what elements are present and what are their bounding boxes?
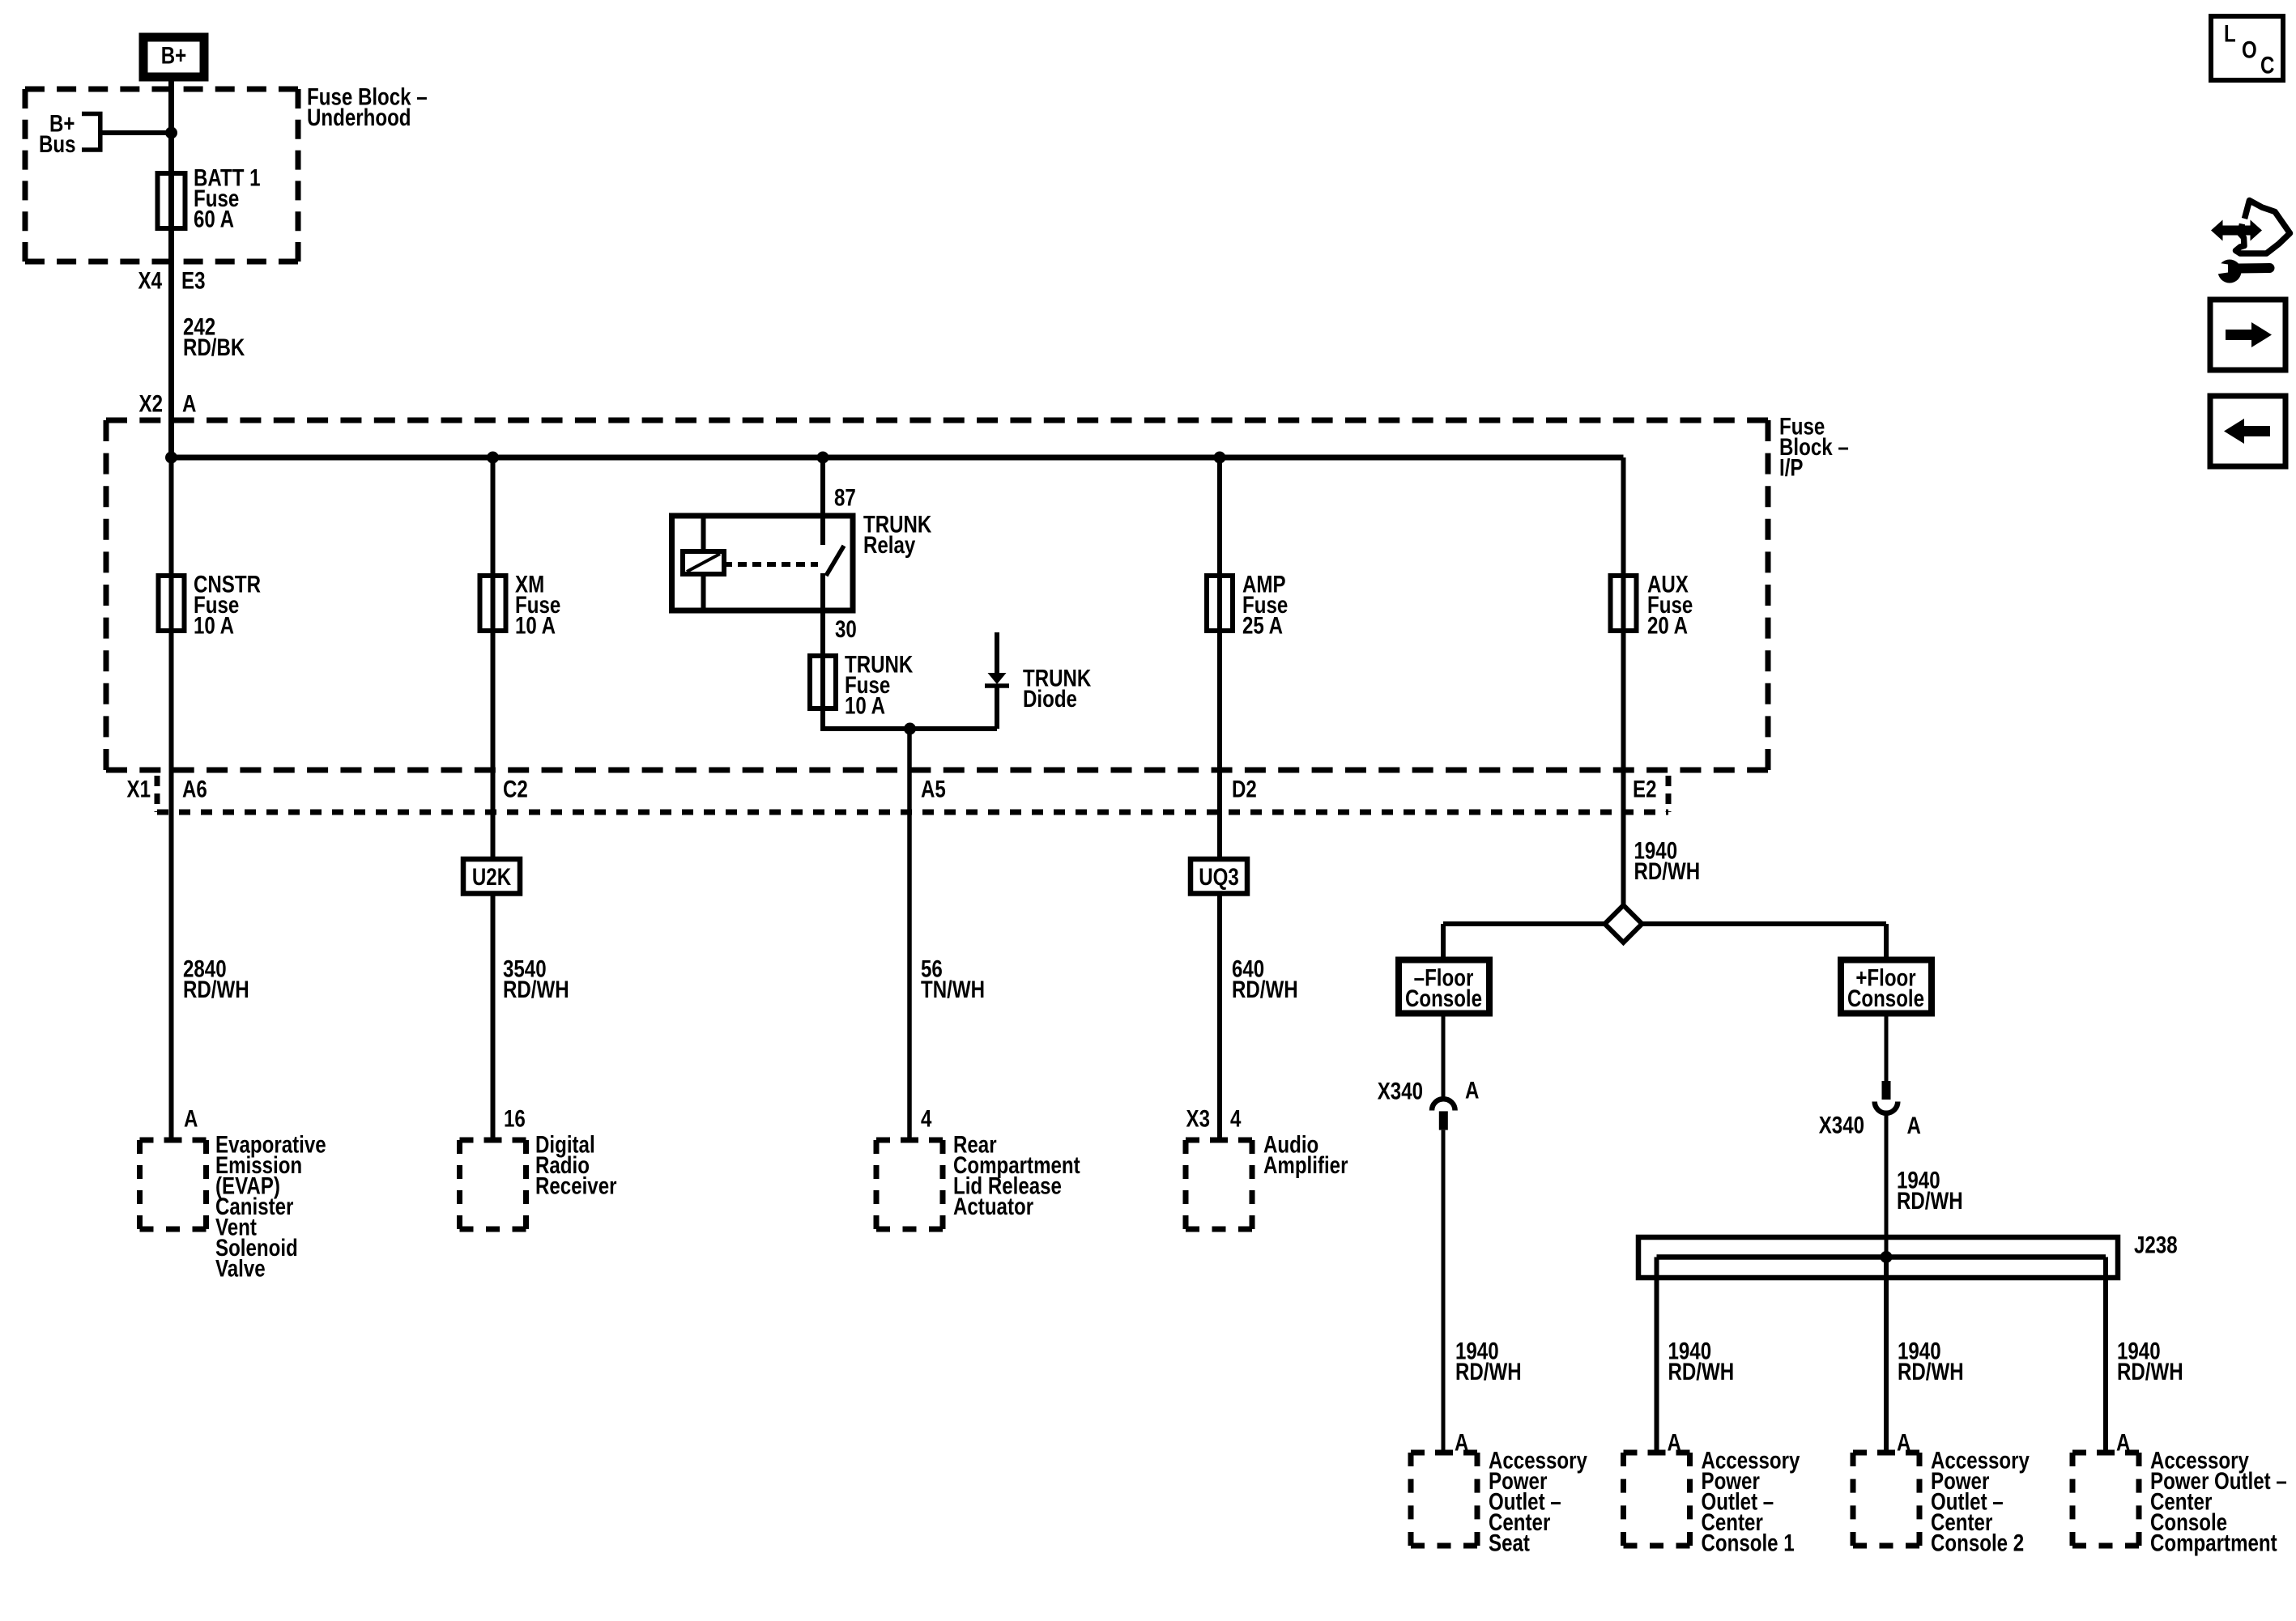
svg-text:J238: J238: [2134, 1232, 2178, 1258]
load box accessory power outlet 2: [1624, 1453, 1690, 1546]
wire J238 drop 3: [2103, 1257, 2108, 1453]
pin A6 label: [182, 776, 207, 802]
svg-text:X340: X340: [1378, 1078, 1423, 1104]
pin A label X340 right: [1907, 1113, 1921, 1139]
svg-text:Bus: Bus: [39, 131, 76, 158]
pin A label X340 left: [1465, 1077, 1479, 1104]
bus corner down to AUX: [1621, 457, 1626, 579]
wire diamond left: [1443, 921, 1605, 926]
AUX fuse label: [1647, 571, 1693, 639]
wire X340 right down to J238: [1885, 1115, 1889, 1257]
svg-text:C: C: [2260, 52, 2274, 79]
diode top lead: [995, 632, 999, 675]
LOC letter L: [2224, 20, 2236, 47]
wire J238 drop 2: [1884, 1257, 1889, 1453]
svg-text:RD/WH: RD/WH: [1898, 1359, 1964, 1385]
pin A label outlet 3: [1897, 1429, 1910, 1456]
fuse XM 10A: [480, 576, 506, 631]
wire relay pin 30: [820, 573, 825, 659]
connector X340 left label: [1378, 1078, 1423, 1104]
svg-text:10 A: 10 A: [845, 692, 885, 719]
svg-text:RD/WH: RD/WH: [1897, 1188, 1963, 1215]
J238 internal bus bar: [1657, 1254, 2106, 1260]
svg-text:Compartment: Compartment: [2150, 1530, 2277, 1556]
svg-text:E2: E2: [1633, 776, 1656, 802]
B+ Bus label B+ line: [49, 110, 75, 137]
X1 row left tick: [155, 776, 160, 812]
wire entry tick load box accessory power outlet 3: [1877, 1450, 1895, 1456]
load box accessory power outlet 3: [1853, 1453, 1919, 1546]
svg-text:4: 4: [921, 1105, 931, 1132]
svg-text:4: 4: [1230, 1105, 1241, 1132]
pin A label outlet 2: [1668, 1429, 1681, 1456]
wire through AUX fuse: [1621, 576, 1626, 631]
X1 connector dotted line: [157, 810, 1668, 815]
svg-text:10 A: 10 A: [194, 612, 234, 639]
wire bus to AMP fuse: [1217, 457, 1222, 579]
wire 640 RD/WH label: [1232, 955, 1298, 1002]
svg-text:RD/BK: RD/BK: [183, 334, 245, 361]
svg-text:20 A: 20 A: [1647, 612, 1688, 639]
svg-text:X340: X340: [1819, 1112, 1864, 1138]
svg-text:10 A: 10 A: [515, 612, 556, 639]
wire BATT1 fuse to X4: [168, 228, 174, 420]
svg-text:A: A: [1668, 1429, 1681, 1456]
pin E2 label: [1633, 776, 1656, 802]
svg-text:A: A: [1897, 1429, 1910, 1456]
EVAP label: [215, 1131, 326, 1282]
wire J238 drop 1: [1655, 1257, 1659, 1453]
svg-text:RD/WH: RD/WH: [1232, 976, 1298, 1003]
wire 2840 RD/WH label: [183, 955, 249, 1002]
svg-text:UQ3: UQ3: [1199, 864, 1239, 891]
Fuse Block - Underhood dashed box: [25, 89, 298, 262]
junction node A5 wire: [904, 723, 916, 735]
wire diamond right: [1642, 921, 1887, 926]
option box U2K: [463, 859, 520, 894]
B+ battery terminal box: [143, 37, 204, 77]
svg-text:Actuator: Actuator: [953, 1193, 1034, 1220]
load box Audio Amplifier: [1186, 1140, 1252, 1229]
wire right corner down: [1884, 924, 1889, 960]
svg-text:C2: C2: [503, 776, 528, 802]
back arrow box: [2210, 396, 2285, 466]
svg-text:Console: Console: [1405, 985, 1482, 1012]
load box EVAP canister vent solenoid valve: [140, 1140, 207, 1229]
J238 label: [2134, 1232, 2178, 1258]
TRUNK fuse label: [845, 651, 914, 719]
wire 1940 RD/WH label outlet 3: [1898, 1338, 1964, 1385]
outlet label 4: [2150, 1447, 2287, 1556]
svg-text:L: L: [2224, 20, 2236, 47]
svg-text:87: 87: [834, 484, 856, 511]
pin 87 label: [834, 484, 856, 511]
fuse AMP 25A: [1207, 576, 1233, 631]
pin A label X2 row: [182, 390, 196, 417]
Rear Compartment label: [953, 1131, 1080, 1219]
svg-text:D2: D2: [1232, 776, 1257, 802]
CNSTR fuse label: [194, 571, 261, 639]
wire entry tick load box EVAP canister vent solenoid valve: [164, 1138, 182, 1143]
diagnostic wrench icon: [2211, 201, 2290, 283]
junction node bus XM: [487, 452, 499, 464]
wire entry tick load box Rear Compartment Lid Release Actuator: [901, 1138, 918, 1143]
relay switch blade: [826, 546, 844, 576]
load box accessory power outlet 4: [2072, 1453, 2139, 1546]
svg-text:30: 30: [835, 616, 857, 643]
LOC letter O: [2242, 36, 2257, 63]
junction node bus AMP: [1214, 452, 1226, 464]
fuse CNSTR 10A: [159, 576, 185, 631]
BATT 1 fuse label: [194, 164, 261, 232]
AMP fuse label: [1242, 571, 1288, 639]
svg-text:O: O: [2242, 36, 2257, 63]
diode bottom lead: [995, 686, 999, 729]
TRUNK diode triangle: [988, 673, 1007, 684]
outlet label 1: [1489, 1447, 1587, 1556]
wire AUX fuse to diamond: [1621, 631, 1626, 907]
svg-text:Valve: Valve: [215, 1255, 266, 1282]
+Floor Console box: [1841, 960, 1932, 1014]
wire 56 TN/WH label: [921, 955, 985, 1002]
wire -floor console down: [1442, 1016, 1446, 1098]
wire UQ3 to amp: [1217, 894, 1222, 1140]
svg-text:Diode: Diode: [1023, 686, 1077, 713]
forward arrow box: [2210, 300, 2285, 370]
TRUNK relay box: [672, 516, 854, 611]
svg-text:X2: X2: [139, 390, 163, 417]
wire 1940 RD/WH label outlet 2: [1668, 1338, 1735, 1385]
junction node bus relay: [817, 452, 829, 464]
connector X340 right male pin: [1882, 1081, 1891, 1100]
wire entry tick load box Digital Radio Receiver: [484, 1138, 502, 1143]
connector X1 label: [127, 776, 151, 802]
svg-text:A: A: [182, 390, 196, 417]
wire CNSTR fuse to EVAP: [169, 631, 174, 1140]
wire left corner down: [1441, 924, 1446, 960]
svg-text:TN/WH: TN/WH: [921, 976, 985, 1003]
diode cathode bar: [985, 683, 1009, 688]
wire 1940 RD/WH label outlet 4: [2117, 1338, 2183, 1385]
svg-text:E3: E3: [181, 267, 205, 294]
connector X340 right female arc: [1875, 1102, 1898, 1113]
outlet label 3: [1931, 1447, 2030, 1556]
relay coil wire upper: [701, 518, 706, 553]
pin 30 label: [835, 616, 857, 643]
svg-text:U2K: U2K: [472, 864, 512, 891]
wire X2 into fuse block: [168, 420, 174, 457]
wire X340 left down to outlet: [1442, 1130, 1446, 1453]
pin A label outlet 4: [2116, 1429, 2130, 1456]
splice pack J238 box: [1638, 1237, 2118, 1278]
wire through CNSTR fuse: [169, 576, 174, 631]
svg-text:Console 1: Console 1: [1702, 1530, 1795, 1556]
junction node B+ bus: [165, 127, 177, 139]
svg-text:RD/WH: RD/WH: [1668, 1359, 1735, 1385]
main bus wire: [172, 455, 1624, 461]
wire AMP fuse to UQ3: [1217, 631, 1222, 860]
load box Digital Radio Receiver: [460, 1140, 526, 1229]
wire entry tick load box accessory power outlet 1: [1435, 1450, 1453, 1456]
load box Rear Compartment Lid Release Actuator: [876, 1140, 943, 1229]
svg-text:Receiver: Receiver: [535, 1172, 617, 1199]
pin X4 label: [138, 267, 163, 294]
svg-text:Console: Console: [1847, 985, 1924, 1012]
svg-text:I/P: I/P: [1779, 454, 1803, 481]
Audio Amplifier label: [1263, 1131, 1348, 1178]
-Floor Console box: [1399, 960, 1489, 1014]
option box UQ3: [1191, 859, 1247, 894]
wire 242 RD/BK label: [183, 313, 245, 360]
splice diamond: [1605, 905, 1642, 942]
wire B+ Bus to junction: [100, 130, 172, 135]
connector X340 right label: [1819, 1112, 1864, 1138]
pin X2 label: [139, 390, 163, 417]
Digital Radio Receiver label: [535, 1131, 617, 1199]
svg-text:X4: X4: [138, 267, 163, 294]
fuse TRUNK 10A: [810, 656, 836, 708]
svg-text:Console 2: Console 2: [1931, 1530, 2024, 1556]
TRUNK Relay label: [863, 511, 932, 558]
pin E3 label: [181, 267, 205, 294]
svg-text:A: A: [1907, 1113, 1921, 1139]
junction node J238: [1881, 1251, 1893, 1263]
wire through BATT1 fuse: [168, 173, 174, 228]
wire 3540 RD/WH label: [503, 955, 569, 1002]
LOC letter C: [2260, 52, 2274, 79]
wire through TRUNK fuse: [820, 656, 825, 708]
forward arrow: [2226, 322, 2272, 347]
Fuse Block - I/P label: [1779, 413, 1849, 481]
svg-text:60 A: 60 A: [194, 206, 234, 232]
pin 16 label: [504, 1105, 526, 1132]
connector X3 label: [1186, 1105, 1210, 1132]
wire TRUNK fuse down: [820, 708, 825, 729]
svg-text:X1: X1: [127, 776, 151, 802]
wire fuse-diode bottom link: [820, 726, 997, 731]
fuse BATT 1 60A: [158, 173, 185, 228]
back arrow: [2224, 419, 2270, 444]
B+ Bus bracket: [82, 114, 100, 151]
fuse AUX 20A: [1611, 576, 1637, 631]
wire node to A5: [907, 729, 912, 1140]
connector X340 left male pin: [1439, 1111, 1448, 1130]
relay coil wire lower: [701, 572, 706, 609]
Fuse Block - Underhood label: [307, 83, 428, 130]
wire 1940 RD/WH label right: [1897, 1167, 1963, 1214]
svg-text:RD/WH: RD/WH: [503, 976, 569, 1003]
pin 4 label amp: [1230, 1105, 1241, 1132]
svg-text:A: A: [184, 1105, 198, 1132]
wire B+ down to BATT1 fuse: [168, 77, 174, 177]
junction node bus col1: [165, 452, 177, 464]
wire XM fuse to U2K: [491, 631, 496, 860]
svg-text:RD/WH: RD/WH: [183, 976, 249, 1003]
TRUNK Diode label: [1023, 665, 1092, 712]
wire entry tick load box Audio Amplifier: [1210, 1138, 1228, 1143]
outlet label 2: [1702, 1447, 1800, 1556]
relay actuation dashed link: [738, 562, 818, 567]
wire through AMP fuse: [1217, 576, 1222, 631]
svg-text:Seat: Seat: [1489, 1530, 1530, 1556]
X1 row right tick: [1666, 776, 1672, 812]
svg-text:RD/WH: RD/WH: [2117, 1359, 2183, 1385]
relay actuation link nub: [724, 562, 732, 567]
pin A label EVAP: [184, 1105, 198, 1132]
pin D2 label: [1232, 776, 1257, 802]
svg-text:Underhood: Underhood: [307, 104, 411, 131]
+Floor Console label: [1847, 964, 1924, 1011]
wire bus to XM fuse: [491, 457, 496, 579]
wire entry tick load box accessory power outlet 4: [2097, 1450, 2115, 1456]
connector X340 left female arc: [1432, 1099, 1455, 1110]
wire 1940 RD/WH label outlet 1: [1455, 1338, 1522, 1385]
svg-text:RD/WH: RD/WH: [1634, 858, 1701, 885]
pin A label outlet 1: [1455, 1429, 1468, 1456]
pin C2 label: [503, 776, 528, 802]
svg-text:A: A: [1465, 1077, 1479, 1104]
wire +floor console down: [1885, 1016, 1889, 1083]
svg-text:16: 16: [504, 1105, 526, 1132]
svg-text:25 A: 25 A: [1242, 612, 1283, 639]
wire bus to relay pin 87: [820, 457, 825, 545]
svg-text:A: A: [1455, 1429, 1468, 1456]
svg-text:RD/WH: RD/WH: [1455, 1359, 1522, 1385]
svg-text:Amplifier: Amplifier: [1263, 1152, 1348, 1179]
-Floor Console label: [1405, 964, 1482, 1011]
svg-text:A5: A5: [921, 776, 946, 802]
XM fuse label: [515, 571, 560, 639]
LOC legend box: [2211, 16, 2283, 80]
svg-text:Relay: Relay: [863, 532, 915, 559]
Fuse Block - I/P dashed box: [106, 420, 1768, 770]
relay coil diagonal: [687, 554, 720, 572]
U2K label: [472, 864, 512, 891]
B+ Bus label Bus line: [39, 131, 76, 158]
pin A5 label: [921, 776, 946, 802]
wire bus to CNSTR fuse: [169, 457, 174, 579]
wire U2K to radio: [491, 894, 496, 1140]
svg-text:A6: A6: [182, 776, 207, 802]
pin 4 label rear: [921, 1105, 931, 1132]
wire through XM fuse: [491, 576, 496, 631]
wire entry tick load box accessory power outlet 2: [1648, 1450, 1666, 1456]
relay coil: [683, 551, 724, 574]
wire 1940 RD/WH label aux: [1634, 837, 1701, 884]
load box accessory power outlet 1: [1411, 1453, 1477, 1546]
svg-text:A: A: [2116, 1429, 2130, 1456]
B+ terminal label: [161, 42, 186, 69]
svg-text:X3: X3: [1186, 1105, 1210, 1132]
svg-text:B+: B+: [161, 42, 186, 69]
UQ3 label: [1199, 864, 1239, 891]
